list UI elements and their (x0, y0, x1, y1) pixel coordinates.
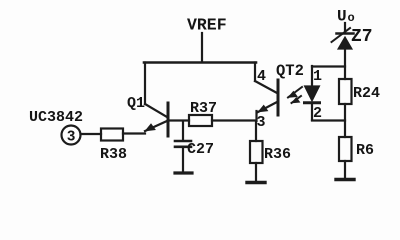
wire left drop to Q1 collector (144, 63, 146, 105)
wire Z7 to R24 (344, 49, 346, 79)
svg-text:1: 1 (313, 68, 322, 85)
pin 2 label (313, 105, 322, 122)
svg-text:QT2: QT2 (276, 62, 304, 80)
ground below R36 (247, 181, 265, 184)
wire R37 to node 3 (212, 119, 256, 121)
resistor R24 (339, 79, 380, 104)
LED diode of optocoupler (305, 66, 320, 120)
wire R36 to ground (255, 163, 257, 181)
wire R38 to Q1 emitter (123, 132, 145, 134)
node Uo label (337, 8, 355, 26)
wire pin 1 to right rail (312, 65, 345, 67)
wire pin3 to R38 (81, 133, 102, 135)
transistor Q1 (127, 95, 189, 136)
ground below R6 (336, 178, 354, 181)
wire base node to C27 tap (182, 121, 184, 140)
resistor R37 (189, 100, 217, 126)
light arrows into QT2 (288, 87, 302, 103)
wire R6 to ground (344, 161, 346, 178)
svg-text:VREF: VREF (187, 16, 227, 35)
svg-text:Z7: Z7 (351, 27, 373, 47)
wire top rail (144, 61, 256, 64)
svg-text:R36: R36 (264, 146, 291, 163)
svg-text:R38: R38 (100, 146, 127, 163)
node pin3 UC3842 (29, 109, 83, 146)
wire Uo stem (344, 23, 346, 32)
svg-text:3: 3 (257, 114, 266, 131)
resistor R38 (100, 129, 127, 164)
transistor QT2 phototransistor (255, 62, 304, 121)
svg-text:C27: C27 (187, 141, 214, 158)
zener diode Z7 (332, 27, 373, 49)
wire VREF stem (201, 33, 203, 62)
svg-text:o: o (348, 11, 355, 25)
ground below C27 (175, 171, 192, 174)
svg-text:3: 3 (67, 130, 76, 146)
resistor R6 (339, 137, 374, 161)
svg-text:UC3842: UC3842 (29, 109, 83, 126)
wire node 3 to R36 (255, 121, 257, 141)
resistor R36 (250, 141, 291, 163)
wire right drop to QT2 collector (254, 63, 256, 82)
node pin 4 label (257, 68, 266, 85)
wire pin 2 to right rail (312, 119, 345, 121)
node 3 (257, 114, 266, 131)
wire R24 to R6 (344, 104, 346, 137)
capacitor C27 (175, 141, 214, 172)
node VREF label (187, 16, 227, 35)
svg-text:R24: R24 (353, 85, 380, 102)
svg-text:Q1: Q1 (127, 95, 145, 112)
svg-text:R6: R6 (356, 142, 374, 159)
LED of QT2, pin 1 top (313, 68, 322, 85)
